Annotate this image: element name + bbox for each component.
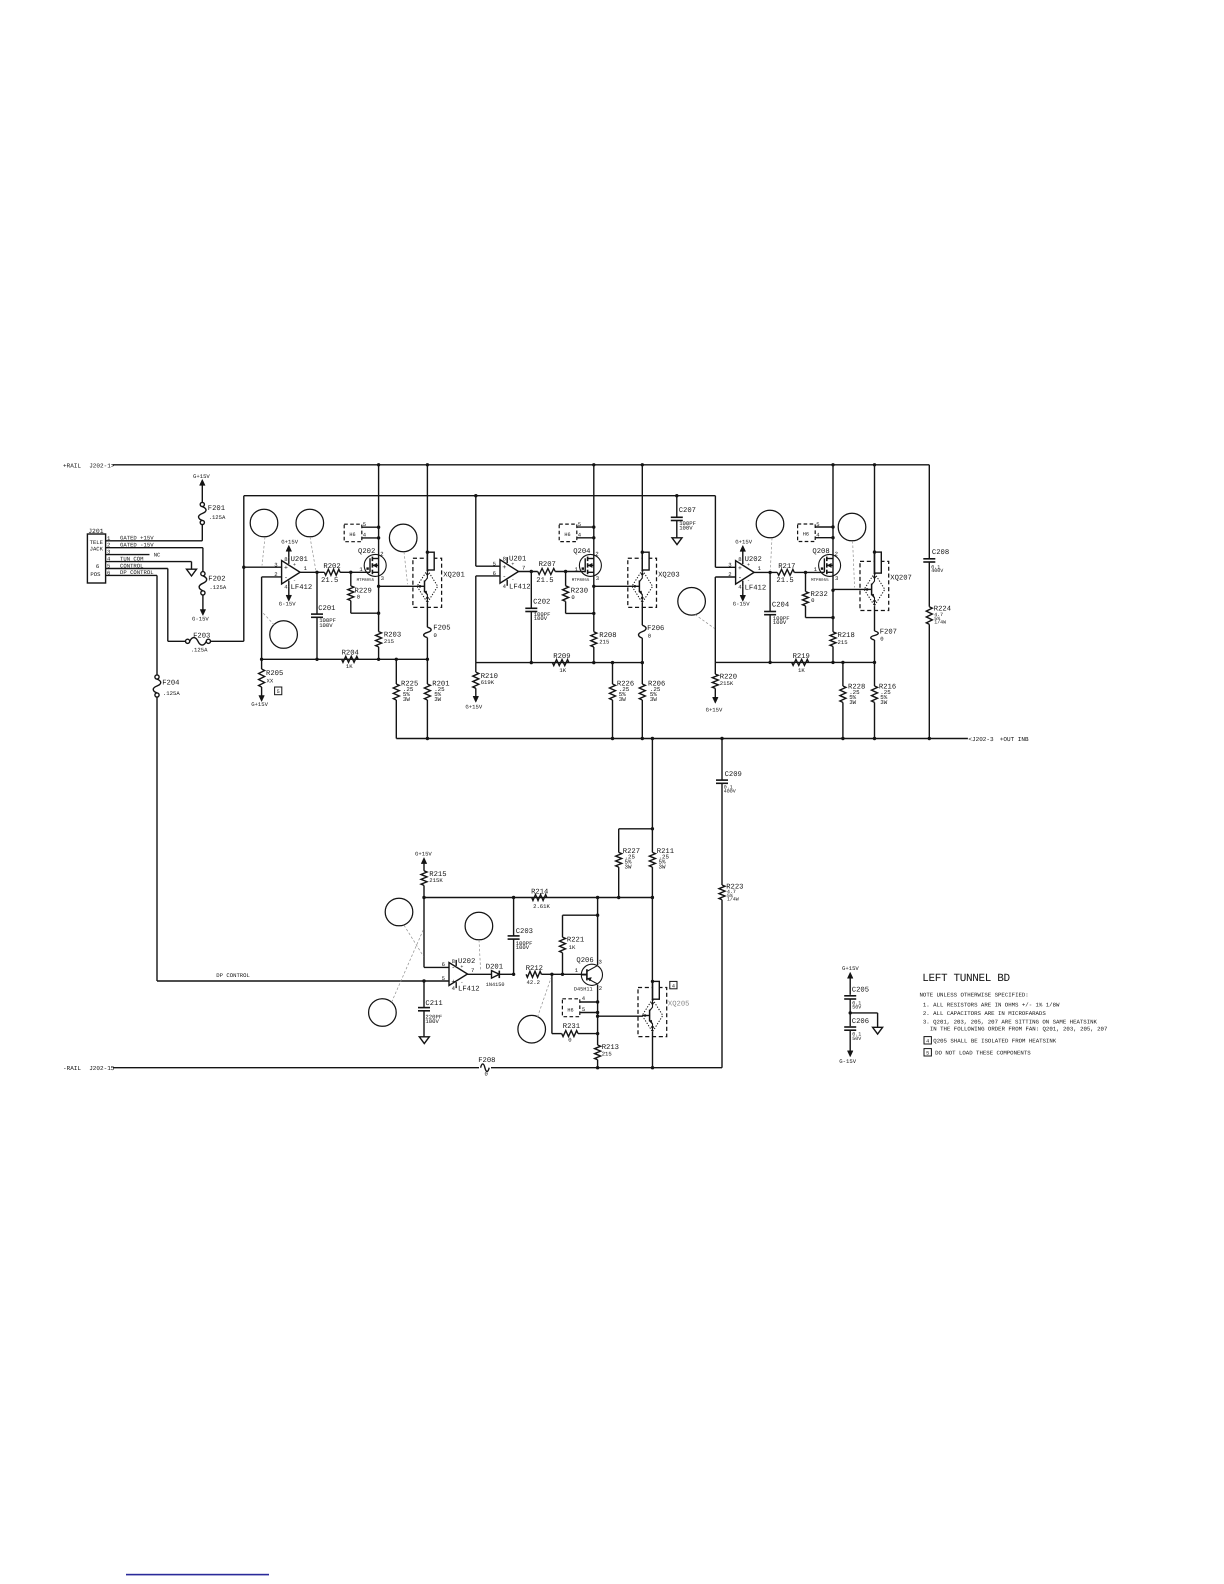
svg-text:F204: F204 <box>162 679 179 687</box>
svg-text:5: 5 <box>493 560 496 567</box>
wire Q206 collector <box>597 898 599 966</box>
svg-text:G+15V: G+15V <box>193 473 210 480</box>
diode D201 1N4150 <box>492 971 500 979</box>
svg-text:7: 7 <box>471 967 474 974</box>
wire U202B -input riser <box>423 898 425 968</box>
svg-text:C207: C207 <box>679 507 696 515</box>
svg-text:.125A: .125A <box>191 647 208 654</box>
svg-text:Q205 SHALL BE ISOLATED FROM HE: Q205 SHALL BE ISOLATED FROM HEATSINK <box>933 1037 1056 1044</box>
svg-text:MTP8055: MTP8055 <box>572 578 590 583</box>
svg-text:+RAIL: +RAIL <box>63 462 81 469</box>
resistor R204 1K <box>342 656 359 662</box>
wire channel 2 source node <box>476 662 643 664</box>
resistor R224 4.7 5% 1/4W <box>926 607 932 625</box>
resistor R202 21.5 <box>324 569 340 575</box>
svg-text:R207: R207 <box>539 561 556 569</box>
wire U202A -input riser <box>715 576 735 578</box>
svg-text:400V: 400V <box>724 789 736 795</box>
resistor R225 .25 5% 3W <box>395 659 397 684</box>
svg-text:215: 215 <box>602 1051 612 1058</box>
svg-text:100V: 100V <box>679 525 693 532</box>
svg-text:C209: C209 <box>725 771 742 779</box>
svg-text:LF412: LF412 <box>509 583 531 591</box>
op-amp U201 section B (LF412) <box>500 560 519 584</box>
svg-text:R217: R217 <box>778 563 795 571</box>
svg-text:LF412: LF412 <box>745 584 767 592</box>
svg-text:DO NOT LOAD THESE COMPONENTS: DO NOT LOAD THESE COMPONENTS <box>935 1049 1031 1056</box>
node balloon 7 <box>838 513 866 541</box>
svg-text:2. ALL CAPACITORS ARE IN MICRO: 2. ALL CAPACITORS ARE IN MICROFARADS <box>923 1010 1046 1017</box>
fuse F206 0 <box>641 603 643 626</box>
svg-text:+: + <box>502 564 506 571</box>
heatsink H6 at Q206 <box>562 999 579 1017</box>
connector J201 <box>87 534 105 583</box>
power G-15V below C206 <box>847 1051 853 1057</box>
transistor XQ203 <box>641 465 643 570</box>
svg-text:400V: 400V <box>931 568 943 574</box>
svg-text:-: - <box>284 574 288 581</box>
svg-text:-: - <box>747 578 750 584</box>
wire Q206 emitter chain <box>597 985 599 1045</box>
resistor R228 .25 5% 3W <box>842 662 844 686</box>
svg-text:+: + <box>747 562 750 568</box>
svg-text:100V: 100V <box>516 944 530 951</box>
svg-text:D201: D201 <box>486 964 503 972</box>
svg-text:C201: C201 <box>318 605 335 613</box>
svg-text:G-15V: G-15V <box>733 601 750 608</box>
resistor R201 .25 5% 3W <box>426 659 428 684</box>
svg-text:+: + <box>511 561 514 567</box>
svg-text:MTP8055: MTP8055 <box>357 578 375 583</box>
svg-text:5: 5 <box>926 1050 929 1056</box>
svg-text:1K: 1K <box>569 944 576 951</box>
svg-text:G+15V: G+15V <box>281 538 298 545</box>
svg-text:100V: 100V <box>319 622 333 629</box>
power G+15V above C205 <box>847 972 853 978</box>
svg-text:XQ205: XQ205 <box>668 1001 690 1009</box>
svg-text:R214: R214 <box>531 888 548 896</box>
wire XQ201 base <box>379 585 417 587</box>
svg-text:G+15V: G+15V <box>465 703 482 710</box>
power G+15V above F201 <box>200 479 206 485</box>
svg-text:+: + <box>293 562 296 568</box>
svg-text:3W: 3W <box>659 864 666 871</box>
svg-text:1K: 1K <box>559 667 566 674</box>
svg-text:G+15V: G+15V <box>251 701 268 708</box>
svg-text:Q208: Q208 <box>812 548 829 556</box>
svg-text:5: 5 <box>442 975 445 982</box>
power G-15V below F202 <box>200 610 206 616</box>
wire J201 pin4 TUN COM to ground <box>106 561 192 563</box>
resistor R230 0 <box>565 572 567 586</box>
svg-text:21.5: 21.5 <box>536 577 553 585</box>
transistor Q204 MTP8055 <box>579 554 601 576</box>
wire U201B output <box>519 571 538 573</box>
svg-text:-: - <box>451 965 455 972</box>
wire U201A +input <box>244 566 282 568</box>
wire C205-C206 junction to ground <box>849 1011 852 1014</box>
svg-text:DP CONTROL: DP CONTROL <box>216 972 250 979</box>
wire drain bus channel 3 <box>832 465 834 632</box>
node balloon 5 <box>678 588 706 616</box>
transistor XQ207 <box>874 465 876 573</box>
resistor R217 21.5 <box>777 569 794 575</box>
svg-text:8: 8 <box>738 556 741 563</box>
resistor R211 .25 5% 3W <box>649 852 655 867</box>
resistor R209 1K <box>552 660 569 666</box>
wire U202A +input riser <box>714 496 716 568</box>
fuse F203 .125A <box>186 639 190 643</box>
svg-text:3: 3 <box>728 561 731 568</box>
op-amp U202 section B (LF412) <box>449 963 468 986</box>
svg-text:G+15V: G+15V <box>735 538 752 545</box>
wire CONTROL riser to distribution line <box>243 496 245 642</box>
svg-text:2: 2 <box>380 551 383 558</box>
svg-text:3W: 3W <box>619 696 626 703</box>
resistor R219 1K <box>792 659 809 665</box>
svg-text:+: + <box>451 978 455 985</box>
svg-text:POS: POS <box>90 571 101 578</box>
ground at C211 <box>419 1037 429 1044</box>
svg-text:.125A: .125A <box>209 584 226 591</box>
note box 4 at XQ205 <box>670 981 677 988</box>
svg-text:R219: R219 <box>793 653 810 661</box>
svg-text:2: 2 <box>599 985 602 992</box>
wire R212 to Q206 base <box>550 973 553 976</box>
wire U201A -input riser <box>262 576 282 578</box>
svg-text:42.2: 42.2 <box>527 979 540 986</box>
svg-text:1K: 1K <box>798 667 805 674</box>
wire U201B +input riser <box>475 496 477 567</box>
wire U202A output <box>754 571 777 573</box>
resistor R215 215K <box>421 871 427 886</box>
resistor R205 XX <box>261 659 263 669</box>
svg-text:3. Q201, 203, 205, 207 ARE SIT: 3. Q201, 203, 205, 207 ARE SITTING ON SA… <box>923 1018 1098 1025</box>
svg-text:H6: H6 <box>803 532 809 538</box>
svg-text:LF412: LF412 <box>291 584 313 592</box>
svg-text:+OUT INB: +OUT INB <box>1000 736 1029 743</box>
svg-text:21.5: 21.5 <box>776 577 793 585</box>
transistor Q208 MTP8055 <box>819 554 841 576</box>
svg-text:5: 5 <box>363 521 366 528</box>
svg-text:2: 2 <box>835 551 838 558</box>
svg-text:8: 8 <box>284 556 287 563</box>
svg-text:F208: F208 <box>478 1057 495 1065</box>
svg-text:C203: C203 <box>516 928 533 936</box>
resistor R226 .25 5% 3W <box>612 663 614 684</box>
svg-text:1K: 1K <box>346 663 353 670</box>
wire U201A output <box>300 571 324 573</box>
transistor Q202 MTP8055 <box>364 554 386 576</box>
svg-text:C205: C205 <box>852 987 869 995</box>
transistor XQ201 <box>426 465 428 570</box>
svg-text:F203: F203 <box>193 632 210 640</box>
wire drain bus channel 2 <box>593 465 595 632</box>
resistor R213 215 <box>595 1045 601 1060</box>
wire XQ205 base <box>598 1015 643 1017</box>
node balloon 6 <box>756 510 784 538</box>
wire J201 pin3 NC stub <box>106 554 150 556</box>
node balloon 4 <box>389 524 417 552</box>
svg-text:3W: 3W <box>403 696 410 703</box>
svg-text:<J202-3: <J202-3 <box>968 736 994 743</box>
op-amp U201 section A (LF412) <box>282 561 301 585</box>
wire J201 pin5 CONTROL <box>106 568 168 570</box>
note box 5 at R205 <box>275 687 282 695</box>
resistor R216 .25 5% 3W <box>874 662 876 686</box>
svg-text:8: 8 <box>503 555 506 562</box>
svg-text:3W: 3W <box>650 696 657 703</box>
svg-text:G-15V: G-15V <box>279 601 296 608</box>
fuse F201 .125A <box>200 502 204 506</box>
node balloon 3 <box>270 621 298 649</box>
svg-text:G-15V: G-15V <box>839 1058 856 1065</box>
transistor Q206 D45H11 <box>581 964 602 985</box>
wire channel 3 source node <box>715 661 874 663</box>
svg-text:1/4W: 1/4W <box>727 897 739 903</box>
wire U202B output <box>468 973 492 975</box>
node balloon 1 <box>250 509 278 537</box>
svg-text:6: 6 <box>442 961 445 968</box>
svg-text:5: 5 <box>816 521 819 528</box>
svg-text:H6: H6 <box>349 532 355 538</box>
wire XQ203 base <box>594 585 632 587</box>
svg-text:215: 215 <box>838 639 848 646</box>
resistor R220 215K <box>714 662 716 674</box>
svg-text:50V: 50V <box>852 1005 861 1011</box>
heatsink H6 channel 1 <box>344 524 362 542</box>
svg-text:50V: 50V <box>852 1036 861 1042</box>
wire J201 pin6 DP CONTROL <box>106 574 157 576</box>
svg-text:+: + <box>284 565 288 572</box>
svg-text:215K: 215K <box>429 877 443 884</box>
ground at C205/C206 <box>873 1027 883 1034</box>
wire drain bus channel 1 <box>378 465 380 632</box>
svg-text:3: 3 <box>596 575 599 582</box>
capacitor C211 220PF <box>422 979 425 982</box>
svg-text:D45H11: D45H11 <box>574 987 593 993</box>
svg-text:R204: R204 <box>342 649 359 657</box>
svg-text:+: + <box>738 565 742 572</box>
svg-text:Q202: Q202 <box>358 548 375 556</box>
heatsink H6 channel 2 <box>559 524 577 542</box>
svg-text:3W: 3W <box>434 696 441 703</box>
svg-text:C202: C202 <box>533 599 550 607</box>
svg-text:6: 6 <box>96 563 99 570</box>
ground at J201 pin4 <box>187 569 197 576</box>
op-amp U202 section A (LF412) <box>736 561 755 585</box>
node footer rule <box>126 1574 269 1576</box>
svg-text:3: 3 <box>835 575 838 582</box>
svg-text:3W: 3W <box>880 699 887 706</box>
node balloon 11 <box>518 1015 546 1043</box>
svg-text:4: 4 <box>926 1038 929 1044</box>
svg-text:C206: C206 <box>852 1018 869 1026</box>
resistor R210 619K <box>475 663 477 673</box>
svg-text:3W: 3W <box>849 699 856 706</box>
svg-text:LF412: LF412 <box>458 986 480 994</box>
svg-text:7: 7 <box>522 564 525 571</box>
wire +OUT bus <box>396 738 968 740</box>
svg-text:100V: 100V <box>534 615 548 622</box>
svg-text:-: - <box>738 575 742 582</box>
svg-text:619K: 619K <box>481 679 495 686</box>
svg-text:215: 215 <box>599 639 609 646</box>
wire J201 pin1 gated +15V <box>106 540 203 542</box>
ground at C207 <box>672 538 682 545</box>
svg-text:NC: NC <box>154 551 161 558</box>
svg-text:100V: 100V <box>425 1018 439 1025</box>
node balloon 9 <box>465 912 493 940</box>
svg-text:R202: R202 <box>323 563 340 571</box>
resistor R231 0 <box>551 974 553 1033</box>
node balloon 10 <box>369 999 397 1027</box>
transistor XQ205 <box>651 898 653 982</box>
svg-text:Q204: Q204 <box>573 548 590 556</box>
capacitor C204 100PF <box>769 572 771 611</box>
capacitor C201 100PF <box>316 572 318 614</box>
svg-text:XX: XX <box>267 677 274 684</box>
svg-text:2: 2 <box>595 551 598 558</box>
svg-text:3W: 3W <box>625 864 632 871</box>
wire control distribution line <box>244 495 716 497</box>
heatsink H6 channel 3 <box>798 524 816 542</box>
svg-text:100V: 100V <box>773 619 787 626</box>
capacitor C208 0.1 400V <box>928 465 930 559</box>
node balloon 2 <box>296 509 324 537</box>
resistor R207 21.5 <box>538 569 556 575</box>
svg-text:215K: 215K <box>720 680 734 687</box>
svg-text:G-15V: G-15V <box>192 616 209 623</box>
resistor R208 215 <box>591 632 597 647</box>
node balloon 8 <box>385 898 413 926</box>
svg-text:1. ALL RESISTORS ARE IN OHMS +: 1. ALL RESISTORS ARE IN OHMS +/- 1% 1/8W <box>923 1001 1060 1008</box>
wire J201 pin2 gated -15V <box>106 547 203 549</box>
resistor R221 1K <box>563 914 598 916</box>
resistor R203 215 <box>376 632 382 647</box>
svg-text:Q206: Q206 <box>576 957 593 965</box>
svg-text:LEFT TUNNEL BD: LEFT TUNNEL BD <box>922 973 1010 985</box>
wire +OUT drop to lower section <box>651 739 653 853</box>
svg-text:215: 215 <box>384 638 394 645</box>
svg-text:5: 5 <box>582 1006 585 1013</box>
svg-text:C208: C208 <box>932 549 949 557</box>
resistor R223 4.7 5% 1/4W <box>719 885 725 900</box>
svg-text:5: 5 <box>578 521 581 528</box>
svg-text:H6: H6 <box>564 532 570 538</box>
svg-text:4: 4 <box>672 983 675 989</box>
note box 4 legend <box>924 1037 931 1044</box>
resistor R214 2.61K <box>532 895 547 901</box>
svg-text:2.61K: 2.61K <box>533 903 550 910</box>
power G+15V above R215 <box>421 858 427 864</box>
capacitor C207 <box>676 496 678 518</box>
capacitor C205 0.1 50V <box>844 995 856 997</box>
svg-text:.125A: .125A <box>163 690 180 697</box>
svg-text:G+15V: G+15V <box>842 965 859 972</box>
svg-text:3: 3 <box>599 958 602 965</box>
svg-text:R231: R231 <box>563 1023 580 1031</box>
svg-text:J202-15: J202-15 <box>89 1065 115 1072</box>
svg-text:3: 3 <box>381 575 384 582</box>
svg-text:MTP8055: MTP8055 <box>811 578 829 583</box>
svg-text:.125A: .125A <box>209 514 226 521</box>
fuse F204 .125A <box>155 675 159 679</box>
capacitor C209 0.1 400V <box>721 739 723 781</box>
svg-text:J201: J201 <box>88 528 104 535</box>
svg-text:G+15V: G+15V <box>415 851 432 858</box>
wire DP CONTROL run to lower section <box>156 697 158 981</box>
svg-text:NOTE UNLESS OTHERWISE SPECIFIE: NOTE UNLESS OTHERWISE SPECIFIED: <box>920 991 1029 998</box>
svg-text:J202-1>: J202-1> <box>89 462 115 469</box>
capacitor C202 100PF <box>530 572 532 609</box>
fuse F208 0 <box>479 1064 491 1072</box>
svg-text:XQ207: XQ207 <box>890 574 912 582</box>
capacitor C206 0.1 50V <box>844 1026 856 1028</box>
wire channel 1 source node <box>262 658 428 660</box>
svg-text:-RAIL: -RAIL <box>63 1065 81 1072</box>
wire +RAIL top rail <box>113 464 930 466</box>
svg-text:-: - <box>460 979 463 985</box>
wire -RAIL bottom rail <box>113 1067 722 1069</box>
svg-text:JACK: JACK <box>90 546 104 553</box>
resistor R232 0 <box>805 572 807 591</box>
resistor R218 215 <box>830 632 836 647</box>
svg-text:R212: R212 <box>526 965 543 973</box>
svg-text:1N4150: 1N4150 <box>486 982 505 988</box>
svg-text:+: + <box>460 964 463 970</box>
wire U201B -input riser <box>476 575 500 577</box>
svg-text:G+15V: G+15V <box>706 707 723 714</box>
fuse F202 .125A <box>201 572 205 576</box>
wire feedback node line <box>424 897 652 899</box>
svg-text:21.5: 21.5 <box>321 577 338 585</box>
svg-text:F202: F202 <box>208 576 225 584</box>
fuse F205 0 <box>426 603 428 628</box>
resistor R229 0 <box>350 572 352 586</box>
svg-text:R209: R209 <box>553 653 570 661</box>
resistor R206 .25 5% 3W <box>641 663 643 684</box>
svg-text:-: - <box>293 578 296 584</box>
svg-text:1/4W: 1/4W <box>934 620 946 626</box>
svg-text:C204: C204 <box>772 602 789 610</box>
svg-text:5: 5 <box>277 689 280 695</box>
svg-text:H6: H6 <box>567 1008 573 1014</box>
svg-text:C211: C211 <box>425 1000 442 1008</box>
svg-text:XQ203: XQ203 <box>658 571 680 579</box>
svg-text:-: - <box>511 577 514 583</box>
svg-text:IN THE FOLLOWING ORDER FROM FA: IN THE FOLLOWING ORDER FROM FAN: Q201, 2… <box>930 1025 1107 1032</box>
resistor R227 .25 5% 3W <box>619 828 653 830</box>
svg-text:-: - <box>502 574 506 581</box>
wire XQ207 base <box>833 588 864 590</box>
svg-text:XQ201: XQ201 <box>443 571 465 579</box>
svg-text:F201: F201 <box>208 505 225 513</box>
fuse F207 0 <box>874 606 876 631</box>
capacitor C203 100PF <box>513 898 515 936</box>
resistor R212 42.2 <box>526 971 541 977</box>
note box 5 legend <box>924 1049 931 1056</box>
